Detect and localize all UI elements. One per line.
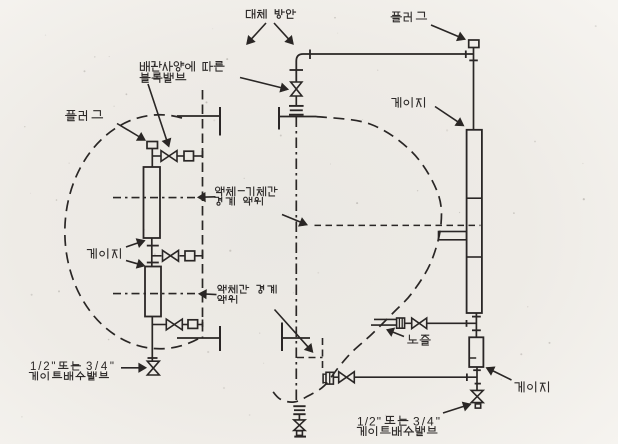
svg-text:3/4": 3/4": [413, 415, 440, 429]
svg-text:1/2": 1/2": [357, 415, 381, 429]
svg-text:1/2": 1/2": [30, 361, 56, 373]
svg-text:3/4": 3/4": [86, 361, 114, 373]
